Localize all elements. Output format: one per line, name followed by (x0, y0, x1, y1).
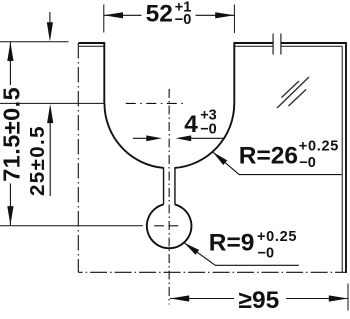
R9 leader arrowhead (184, 243, 199, 255)
dimension 25 upper outside arrow (down) (49, 12, 51, 24)
svg-text:25±0.5: 25±0.5 (26, 125, 49, 196)
glass right edge inner thin line (341, 46, 343, 272)
dimension >=95 left arrowhead (170, 295, 189, 301)
slot right line (174, 167, 176, 204)
glass right edge outer thick line (345, 42, 347, 273)
glass hatch marks (277, 77, 309, 108)
R9 circle (147, 204, 192, 248)
cutout left vertical edge (103, 42, 105, 103)
svg-text:4: 4 (184, 111, 198, 138)
dimension 4 left arrow (pointing right) (133, 137, 147, 139)
svg-text:≥95: ≥95 (239, 287, 280, 314)
dimension 52 left arrowhead (104, 12, 123, 18)
R26 leader line (213, 152, 342, 175)
break symbol ticks on top edge (273, 34, 281, 55)
dimension 52 left extension line (103, 5, 105, 33)
svg-text:+0.25: +0.25 (299, 139, 339, 155)
vertical centerline of cutout (168, 89, 170, 305)
circle center cross dashes (154, 225, 178, 227)
dimension 52 line right segment (196, 14, 235, 16)
svg-text:R=26: R=26 (239, 142, 298, 169)
svg-text:−0: −0 (175, 12, 192, 28)
dimension >=95 right extension line (347, 284, 349, 311)
minimum glass edge dash-dot horizontal (bottom) (78, 271, 346, 273)
dimension 71.5 line lower part with down arrowhead (9, 184, 11, 226)
dimension >=95 line right segment (286, 298, 348, 300)
minimum glass edge dash-dot vertical (left) (77, 43, 79, 272)
dimension >=95 right arrowhead (329, 295, 348, 301)
dimension 25 lower outside arrow (up) with tail (49, 122, 51, 196)
arc center horizontal line (solid extension left) (0, 102, 104, 104)
dimension 52 right arrowhead (215, 12, 234, 18)
glass top edge inner thin line (79, 45, 342, 47)
dimension 71.5 line upper part with up arrowhead (9, 42, 11, 85)
dimension 4 right arrow (pointing left) (191, 137, 225, 139)
circle center horizontal line (solid extension left) (0, 225, 143, 227)
R9 leader line (184, 243, 299, 266)
svg-text:71.5±0.5: 71.5±0.5 (0, 87, 25, 182)
dimension 52 line left segment (104, 14, 142, 16)
R26 leader arrowhead (213, 152, 228, 165)
svg-text:R=9: R=9 (209, 230, 255, 257)
dimension >=95 line left segment (170, 298, 234, 300)
top edge extension line for 71.5/25 (0, 41, 69, 43)
svg-text:−0: −0 (299, 155, 316, 171)
cutout right vertical edge (233, 42, 235, 103)
svg-text:−0: −0 (258, 246, 275, 262)
R26 arc (104, 103, 234, 168)
svg-text:+0.25: +0.25 (257, 229, 297, 245)
slot left line (163, 167, 165, 204)
svg-text:52: 52 (146, 1, 173, 28)
glass top edge outer thick line (79, 42, 347, 44)
dimension 52 right extension line (233, 5, 235, 34)
svg-text:−0: −0 (200, 122, 217, 138)
arc center horizontal dash-dot inside cutout (126, 102, 187, 104)
